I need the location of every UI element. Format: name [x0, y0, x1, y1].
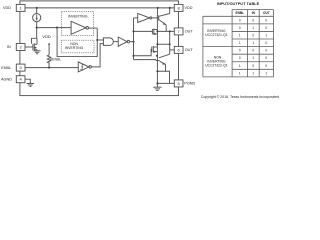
svg-text:0: 0	[265, 56, 267, 60]
node VDD right taps	[157, 7, 159, 9]
wire ENBL	[25, 67, 78, 69]
op driver U-drv	[118, 37, 127, 46]
svg-text:OUT: OUT	[263, 11, 270, 15]
current source I1	[33, 14, 41, 22]
table header	[235, 11, 269, 15]
pin 3 box	[16, 64, 25, 71]
svg-text:1: 1	[252, 41, 254, 45]
wire to upper inverter	[134, 17, 138, 19]
schmitt trigger U-en	[78, 62, 89, 72]
svg-text:IN: IN	[252, 11, 256, 15]
transistor Q-sink NPN	[134, 59, 157, 61]
pin 7 box	[174, 28, 183, 35]
svg-text:0: 0	[265, 41, 267, 45]
wire PGND	[157, 82, 174, 84]
wire current source to input node	[36, 22, 38, 39]
ground (power)	[156, 83, 158, 87]
svg-text:0: 0	[239, 26, 241, 30]
svg-text:0: 0	[252, 34, 254, 38]
svg-text:VDD: VDD	[185, 6, 193, 10]
wire current source drop	[36, 8, 38, 14]
table section labels	[205, 29, 228, 67]
wire AGND	[25, 79, 30, 83]
op inverter U-inv	[71, 21, 86, 34]
wire VDD drop to collector	[169, 8, 171, 14]
svg-text:0: 0	[252, 64, 254, 68]
wire lower gate path	[134, 49, 152, 55]
table data	[239, 18, 268, 75]
wire gate drive to clamp	[32, 38, 37, 44]
pin 8 box	[174, 4, 183, 11]
node VDD/current source tap	[36, 7, 38, 9]
VDD arrow (R_ENBL pull-up)	[48, 45, 50, 55]
svg-text:0: 0	[265, 26, 267, 30]
svg-text:0: 0	[252, 49, 254, 53]
wire OUT rail right	[169, 31, 171, 54]
svg-text:0: 0	[265, 64, 267, 68]
svg-text:1: 1	[252, 56, 254, 60]
wire signal to inverter	[37, 27, 71, 29]
wire OUT pin7	[157, 30, 174, 32]
svg-text:1: 1	[239, 41, 241, 45]
option box NON INVERTING (dashed)	[61, 40, 94, 53]
svg-text:0: 0	[239, 56, 241, 60]
transistor Q-in clamp NMOS	[25, 46, 33, 48]
IC body border	[20, 1, 179, 96]
svg-text:1: 1	[239, 34, 241, 38]
svg-text:OUT: OUT	[185, 30, 194, 34]
node gate input A	[96, 39, 98, 41]
op upper inverter U-up	[138, 13, 150, 22]
svg-text:1: 1	[239, 64, 241, 68]
wire emitter to PGND	[157, 71, 169, 83]
svg-text:0: 0	[239, 49, 241, 53]
gate U-and	[103, 38, 113, 46]
svg-text:0: 0	[252, 18, 254, 22]
wire gate to driver	[113, 41, 118, 43]
wire VDD top rail	[25, 7, 174, 9]
pin 5 box	[174, 80, 183, 87]
svg-text:ENBL: ENBL	[52, 58, 61, 62]
wire predrive vertical	[133, 18, 135, 60]
wire OUT pin6	[170, 49, 175, 51]
ground (analog)	[27, 83, 34, 85]
pin 2 box	[16, 44, 25, 51]
svg-text:ENBL: ENBL	[235, 11, 244, 15]
wire upper base	[152, 17, 159, 19]
wire inverter output	[89, 27, 98, 29]
node option split	[56, 27, 58, 29]
node upper gate tap	[132, 30, 134, 32]
svg-text:VDD: VDD	[42, 34, 51, 39]
wire OUT node	[157, 43, 169, 45]
resistor R_ENBL	[47, 55, 51, 68]
wire gate input B from schmitt	[91, 44, 103, 67]
node ENBL/resistor	[48, 67, 50, 69]
node pin7 tap	[156, 30, 158, 32]
wire main vertical rail (VDD to mid FET)	[156, 8, 158, 84]
wire option vertical	[57, 28, 97, 57]
node driver out	[132, 41, 134, 43]
svg-text:1: 1	[239, 71, 241, 75]
svg-text:IN: IN	[7, 45, 11, 49]
svg-text:1: 1	[252, 71, 254, 75]
svg-text:1: 1	[265, 34, 267, 38]
pin numbers	[20, 5, 181, 86]
svg-text:AGND: AGND	[1, 77, 12, 81]
pin labels	[1, 6, 196, 86]
svg-text:PGND: PGND	[184, 82, 195, 86]
svg-text:UCC27322-Q1: UCC27322-Q1	[205, 63, 228, 67]
node lower tap	[132, 55, 134, 57]
pin 6 box	[174, 46, 183, 53]
ground (input stage)	[34, 50, 41, 52]
svg-text:VDD: VDD	[3, 6, 11, 10]
svg-text:1: 1	[252, 26, 254, 30]
transistor Q-up NPN	[158, 15, 160, 20]
svg-text:Copyright © 2016, Texas Instru: Copyright © 2016, Texas Instruments Inco…	[201, 95, 279, 99]
svg-text:ENBL: ENBL	[1, 66, 11, 70]
svg-text:OUT: OUT	[185, 48, 194, 52]
node input signal	[36, 27, 38, 29]
pin 4 box	[16, 76, 25, 83]
svg-text:0: 0	[239, 18, 241, 22]
pin 1 box	[16, 4, 25, 11]
wire driver output	[130, 41, 134, 43]
svg-text:0: 0	[265, 18, 267, 22]
table grid	[203, 10, 274, 77]
svg-text:UCC27321-Q1: UCC27321-Q1	[205, 33, 228, 37]
svg-text:0: 0	[265, 49, 267, 53]
svg-text:INPUT/OUTPUT TABLE: INPUT/OUTPUT TABLE	[217, 1, 260, 6]
svg-text:INVERTING: INVERTING	[65, 46, 84, 50]
transistor Q-low MOSFET	[151, 47, 153, 52]
transistor Q-mid MOSFET	[134, 30, 153, 32]
wire gate input A	[97, 39, 103, 41]
svg-text:INVERTING: INVERTING	[68, 15, 88, 19]
svg-text:1: 1	[265, 71, 267, 75]
option box INVERTING (dashed)	[62, 12, 94, 36]
